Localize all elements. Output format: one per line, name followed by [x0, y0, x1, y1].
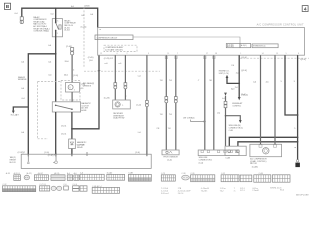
svg-text:11: 11 [167, 53, 169, 55]
dashed compressor assy box [104, 45, 137, 51]
connector C-73b pinout [40, 186, 50, 191]
wire switch output B [71, 112, 73, 129]
connector pair on feed line [224, 101, 227, 107]
side line connection box [198, 150, 239, 156]
page marker 4 [302, 6, 308, 13]
svg-text:B 7-1: B 7-1 [240, 190, 245, 192]
label box A-70 [240, 44, 251, 48]
svg-text:1: 1 [122, 105, 123, 107]
label below down arrow [232, 102, 243, 107]
legend text column 1 [161, 188, 169, 195]
photo sensor box PS2 [162, 150, 179, 155]
svg-text:14: 14 [262, 53, 264, 55]
compressor motor M1 [250, 144, 282, 156]
connector C-0B pinout left [240, 175, 252, 182]
svg-text:CONN SW 27B(A-1: CONN SW 27B(A-1 [33, 30, 49, 33]
svg-text:17: 17 [206, 53, 208, 55]
svg-text:C-0? 4/2: C-0? 4/2 [77, 145, 86, 147]
svg-text:74-24m: 74-24m [201, 191, 208, 193]
svg-text:PHOTO SENSOR: PHOTO SENSOR [163, 157, 178, 159]
legend text column 2 [178, 188, 191, 195]
svg-text:[C-0]: [C-0] [74, 75, 79, 77]
svg-text:15: 15 [276, 53, 278, 55]
joint connector label [183, 117, 205, 122]
connector GB ovals [51, 186, 62, 190]
wire magnetic clutch line [72, 55, 99, 129]
svg-text:C-0: C-0 [80, 172, 83, 174]
connector symbol on lock sensor line [145, 101, 148, 107]
connector C-0 small [64, 186, 69, 190]
node feed branch [225, 115, 227, 117]
dashed section divider vertical [83, 7, 85, 68]
connector A-37 pinout [51, 175, 65, 181]
svg-text:74-2: 74-2 [220, 191, 224, 193]
svg-text:(C-05): (C-05) [81, 27, 87, 29]
pin tick C-0 on junction block [86, 152, 88, 156]
label side note left of clutch line [80, 82, 94, 90]
node engine signal junction [238, 83, 240, 85]
svg-text:(C-0): (C-0) [135, 152, 140, 154]
wire branch to ELC line [28, 54, 55, 154]
power transistor box Q1 [225, 146, 246, 155]
svg-text:3: 3 [148, 53, 149, 55]
svg-text:(C): (C) [217, 113, 220, 115]
connector table row B labels [2, 184, 101, 188]
svg-text:7: 7 [177, 53, 178, 55]
svg-text:8: 8 [298, 53, 299, 55]
legend text column 8 [270, 187, 284, 191]
junction block box [21, 154, 151, 168]
wire ground run [285, 55, 298, 115]
legend text column 3 [201, 188, 209, 192]
ground body point [296, 160, 298, 162]
svg-text:(C-0): (C-0) [199, 162, 204, 164]
wire ground bus 1 [229, 137, 297, 146]
op unit U2 A/C compressor control unit box [98, 28, 305, 56]
dashed connector pass line right [240, 57, 309, 59]
connector C-39 pinout [191, 175, 215, 182]
svg-text:58: 58 [215, 53, 217, 55]
svg-text:0: 0 [82, 186, 83, 188]
relay U1 A/C compressor relay [52, 19, 62, 37]
wire photo sensor 2 [175, 55, 177, 150]
svg-text:BLOCK: BLOCK [10, 162, 17, 164]
svg-text:UNIT (C-70): UNIT (C-70) [219, 73, 229, 75]
svg-text:(7-0 4: (7-0 4 [61, 125, 67, 127]
wire battery feed bus [22, 8, 98, 27]
connector C-0 stacked [73, 186, 79, 191]
label box A-05 [226, 44, 240, 49]
label engine control unit [219, 71, 230, 75]
svg-text:1: 1 [240, 53, 241, 55]
label below compressor motor [250, 158, 267, 169]
svg-text:(C-0): (C-0) [44, 152, 49, 154]
svg-text:WIRING B: WIRING B [83, 86, 92, 88]
svg-text:DUAL PR SW: DUAL PR SW [113, 117, 124, 120]
svg-text:7-2m44: 7-2m44 [252, 190, 258, 192]
node ground bus join [297, 136, 299, 138]
tick on clutch line [98, 70, 101, 72]
dashed box around thermo [61, 80, 80, 100]
connector symbols on photo sensor lines [165, 97, 178, 103]
svg-text:|-[C-0]: |-[C-0] [241, 70, 247, 72]
svg-text:26-102: 26-102 [64, 30, 70, 32]
svg-text:[C-05]: [C-05] [66, 46, 72, 48]
node branch at relay output [55, 53, 57, 55]
svg-text:CONNECTION 1: CONNECTION 1 [199, 160, 213, 162]
wire engine signal [238, 55, 240, 97]
wire relay output [55, 30, 57, 101]
page marker B [4, 3, 10, 10]
svg-text:A-38: A-38 [6, 172, 10, 175]
svg-text:(C-0): (C-0) [167, 160, 172, 162]
svg-text:COMPRESSOR CIRCUIT: COMPRESSOR CIRCUIT [97, 37, 119, 39]
label block right of relay [64, 19, 76, 31]
arrow feed from other page [224, 93, 227, 102]
wire in-car sensor 2 [213, 55, 215, 150]
A/C switch S1 [52, 102, 80, 112]
diode D1 [69, 139, 76, 149]
arrow to engine control unit [226, 75, 240, 84]
dashed section divider horizontal [84, 70, 160, 72]
connector C-73 pinout [161, 175, 175, 181]
connector C-08 pinout [80, 174, 104, 180]
connector C-0B pinout right [272, 175, 290, 182]
thermo sensor TS1 [66, 83, 80, 93]
wire pressure line 1 [114, 55, 116, 100]
connector C-32 pinout [3, 186, 36, 192]
svg-text:(C-23): (C-23) [104, 98, 110, 100]
label photo sensor [163, 157, 178, 162]
svg-text:2: 2 [127, 53, 128, 55]
label bracket expansion [252, 44, 278, 48]
compressor circuit label box [95, 35, 133, 40]
connector table row A labels [6, 172, 264, 175]
svg-text:(C-32) 7|: (C-32) 7| [48, 155, 56, 157]
label side line connection [199, 157, 213, 164]
fusible link F2 on sensor feed [70, 48, 73, 55]
svg-text:C-38: C-38 [181, 173, 185, 175]
svg-text:A-70(1): A-70(1) [241, 44, 247, 47]
connector symbol on pressure line 2 [124, 83, 127, 89]
legend text column 5 [234, 188, 236, 192]
svg-text:(C-0B): (C-0B) [252, 166, 258, 168]
wire ground drop [297, 55, 299, 159]
svg-text:C-0B: C-0B [225, 158, 230, 160]
label block right of switch [81, 102, 91, 112]
wire sensor feed lower [71, 92, 73, 102]
connector C-0B wide [92, 187, 119, 193]
svg-text:12: 12 [100, 53, 102, 55]
svg-text:A-10B: A-10B [81, 109, 87, 112]
node bus crossing b [274, 136, 276, 138]
wire switch output A [55, 112, 57, 154]
connector A-33 pinout [24, 175, 29, 180]
node ground join [297, 114, 299, 116]
relay coil inside junction block [53, 154, 57, 163]
svg-text:5: 5 [286, 53, 287, 55]
svg-text:A/C COMPRESSOR CONTROL UNIT: A/C COMPRESSOR CONTROL UNIT [257, 24, 304, 27]
svg-text:B: B [6, 4, 10, 10]
connector C-52 pinout [221, 175, 239, 182]
svg-text:| 0720: | 0720 [84, 6, 90, 8]
node bus crossing a [260, 136, 262, 138]
svg-text:KII-4: KII-4 [280, 190, 284, 192]
svg-text:4: 4 [73, 70, 74, 72]
label C-05 below box left [88, 57, 94, 62]
wire photo sensor 1 [165, 55, 167, 150]
svg-text:ELC-4A/T: ELC-4A/T [11, 113, 20, 116]
node clutch junction [71, 128, 73, 130]
wire condenser fan 2 [274, 55, 276, 144]
svg-text:(C-0): (C-0) [136, 105, 141, 107]
wire diode to junction block [71, 149, 73, 155]
legend text column 7 [252, 188, 258, 192]
legend text column 4 [220, 188, 226, 192]
node bus2 end [260, 141, 262, 143]
junction block pin ticks [28, 153, 72, 157]
svg-text:(A-32): (A-32) [26, 172, 32, 175]
wire internal circuit link [133, 37, 240, 44]
svg-text:|-[C-0]: |-[C-0] [241, 57, 247, 59]
dual pressure switch PS1 [113, 100, 131, 109]
wire condenser fan 1 [260, 55, 262, 144]
label left of junction block [10, 156, 17, 164]
label dash wiring note [18, 76, 27, 81]
svg-text:(7-0 4: (7-0 4 [61, 133, 67, 135]
svg-text:WIRING-B: WIRING-B [18, 79, 27, 81]
svg-text:20-7-4: 20-7-4 [178, 193, 183, 195]
dashed boundary near thermo [38, 82, 61, 139]
svg-text:EXPANSION (2): EXPANSION (2) [253, 45, 266, 48]
wire in-car sensor 1 [204, 55, 206, 150]
svg-text:7-[C-0]: 7-[C-0] [300, 59, 307, 61]
fuse inside junction block [27, 154, 30, 163]
svg-text:CONTROL: CONTROL [232, 106, 241, 108]
fusible link F1 [20, 17, 23, 24]
connector symbol on pressure line 1 [114, 83, 117, 89]
svg-text:(COOLANT CIRCUIT): (COOLANT CIRCUIT) [105, 49, 123, 52]
connector A-32 pinout [34, 175, 48, 181]
wire feed to power transistor [225, 108, 227, 147]
legend text column 6 [240, 188, 245, 192]
wire ground bus 2 [238, 142, 298, 146]
svg-text:3-20 m-4: 3-20 m-4 [161, 193, 169, 195]
wire pressure line 2 [124, 55, 126, 100]
arrow engine signal down [238, 97, 241, 100]
svg-text:4: 4 [116, 53, 117, 55]
pin numbers inside box bottom [100, 53, 299, 55]
svg-text:F20: F20 [80, 88, 83, 90]
connector C-38 pinout [182, 175, 190, 180]
svg-text:(C-23) 1/2: (C-23) 1/2 [104, 58, 114, 60]
label block left of relay [33, 16, 49, 33]
pin ticks below box edge [165, 55, 215, 58]
connector small rect [80, 186, 87, 191]
connector C-0B pinout mid [254, 175, 271, 182]
label side line connector [229, 125, 244, 132]
svg-text:JNT CONN(2): JNT CONN(2) [183, 117, 195, 119]
svg-text:MOTOR: MOTOR [250, 163, 257, 165]
connector C-09 pinout [107, 174, 125, 180]
svg-text:AW1/PQ1B9: AW1/PQ1B9 [296, 194, 309, 197]
svg-text:COMPRESSOR ASSY: COMPRESSOR ASSY [105, 46, 124, 49]
svg-text:4: 4 [304, 6, 307, 12]
connector C-0B2 pinout [128, 174, 151, 181]
wire sensor feed upper [71, 55, 73, 83]
label block right of diode [77, 141, 87, 149]
svg-text:1: 1 [74, 90, 75, 92]
svg-text:(C-32)|7: (C-32)|7 [18, 152, 26, 154]
connector A-13 pinout [67, 175, 72, 181]
arrow side branch down [226, 116, 242, 124]
svg-text:C-0B: C-0B [128, 172, 133, 174]
wire to diode [71, 129, 73, 139]
pin tick right on junction block [146, 151, 148, 157]
connector A-0 pinout [74, 175, 79, 181]
svg-text:7-[C-0]: 7-[C-0] [241, 94, 248, 96]
svg-text:1: 1 [57, 33, 58, 35]
connector A-38 pinout [14, 175, 21, 181]
wire relay feed [55, 8, 57, 22]
node junction on bus [55, 7, 57, 9]
wire ELC-A/T branch arrow [12, 107, 28, 114]
label below pressure switch [113, 113, 125, 120]
wire lock sensor [146, 55, 148, 154]
svg-text:(C-0)2: (C-0)2 [107, 172, 112, 174]
